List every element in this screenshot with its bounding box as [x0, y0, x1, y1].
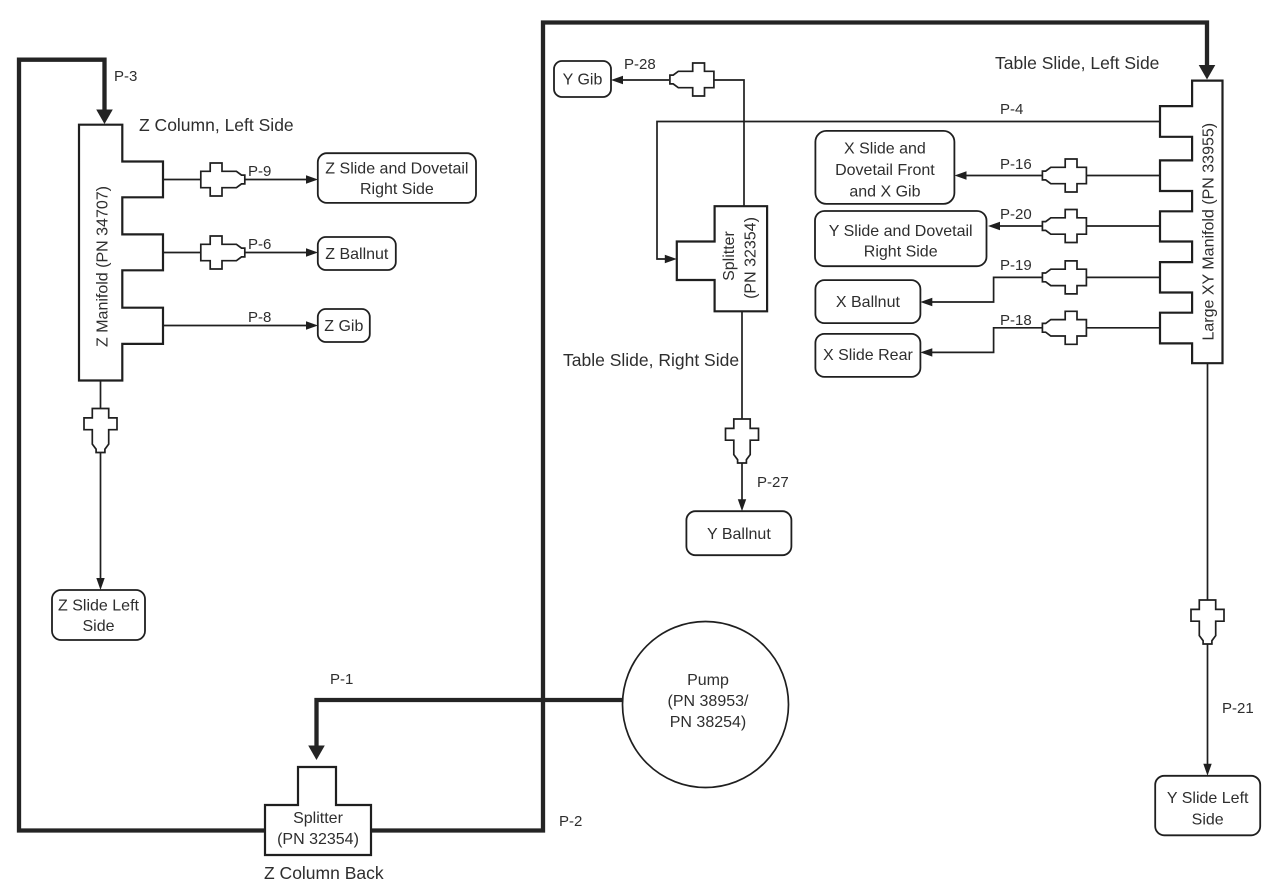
svg-text:P-28: P-28 — [624, 56, 656, 73]
svg-text:(PN 38953/: (PN 38953/ — [668, 693, 749, 710]
arrowhead into Z Ballnut box — [306, 248, 318, 256]
pump circle Pump (PN 38953/ PN 38254) — [623, 622, 789, 788]
wire P-6 from manifold tab to fitting — [163, 252, 201, 254]
node box X Slide Rear — [815, 334, 920, 377]
svg-text:P-19: P-19 — [1000, 257, 1032, 274]
wire P-20 fitting to box — [1000, 225, 1043, 227]
svg-text:Splitter: Splitter — [293, 810, 343, 827]
wire P-6 from fitting to box — [245, 252, 307, 254]
node box X Ballnut — [815, 280, 920, 323]
manifold Large XY Manifold (PN 33955) — [1160, 81, 1223, 364]
node box Z Gib — [318, 309, 370, 342]
arrowhead into Y Slide Left Side box — [1203, 764, 1211, 776]
svg-text:Z Slide and Dovetail: Z Slide and Dovetail — [325, 160, 468, 177]
splitter bottom Splitter (PN 32354) — [265, 767, 371, 855]
arrowhead into Z Slide and Dovetail box — [306, 175, 318, 183]
arrowhead into Y Slide and Dovetail box — [988, 222, 1000, 230]
node box Z Slide and Dovetail Right Side — [318, 153, 476, 203]
fitting below center splitter (pointing down) — [726, 419, 759, 463]
fitting on P-9 — [201, 163, 245, 196]
svg-text:Z Gib: Z Gib — [324, 318, 363, 335]
wire P-18 from manifold tab through fitting with jog to X Slide Rear — [932, 328, 1160, 353]
wire from center splitter bottom to fitting — [741, 311, 743, 419]
wire P-16 from manifold tab to fitting — [1087, 175, 1161, 177]
svg-text:Y Slide Left: Y Slide Left — [1167, 790, 1249, 807]
svg-text:Right Side: Right Side — [864, 243, 938, 260]
svg-text:Y Gib: Y Gib — [563, 72, 603, 89]
wire thick feed P-3: splitter left port, left wall, top, down into Z manifold — [19, 60, 266, 831]
fitting on P-20 (pointing left) — [1042, 210, 1086, 243]
svg-text:Side: Side — [82, 618, 114, 635]
node box X Slide and Dovetail Front and X Gib — [815, 131, 954, 204]
node box Z Slide Left Side — [52, 590, 145, 640]
wire from fitting down to Y Ballnut — [741, 463, 743, 500]
node box Y Slide Left Side — [1155, 776, 1260, 836]
svg-text:P-2: P-2 — [559, 813, 582, 830]
svg-text:Large XY Manifold (PN 33955): Large XY Manifold (PN 33955) — [1200, 123, 1217, 341]
svg-text:and X Gib: and X Gib — [849, 184, 920, 201]
svg-text:Z Slide Left: Z Slide Left — [58, 598, 139, 615]
svg-text:P-8: P-8 — [248, 309, 271, 326]
arrowhead into X Slide and Dovetail box — [955, 171, 967, 179]
arrowhead thick into Z manifold top — [96, 110, 113, 125]
arrowhead into X Ballnut box — [920, 298, 932, 306]
wire P-9 from fitting to box — [245, 179, 307, 181]
fitting below XY manifold (pointing down) — [1191, 600, 1224, 644]
svg-text:Dovetail Front: Dovetail Front — [835, 162, 935, 179]
arrowhead into center splitter neck — [665, 255, 677, 263]
wire from Z manifold bottom to fitting — [100, 381, 102, 409]
svg-text:P-16: P-16 — [1000, 156, 1032, 173]
wire thick P-1: pump left to bottom splitter — [317, 700, 624, 746]
wire P-16 fitting to box — [966, 175, 1042, 177]
svg-text:Z Ballnut: Z Ballnut — [325, 246, 389, 263]
arrowhead into Y Gib — [611, 76, 623, 84]
svg-text:Y Ballnut: Y Ballnut — [707, 526, 771, 543]
arrowhead into Z Slide Left Side box — [96, 578, 104, 590]
svg-text:Z Manifold (PN 34707): Z Manifold (PN 34707) — [95, 186, 112, 347]
node box Z Ballnut — [318, 237, 396, 270]
fitting below Z manifold (pointing down) — [84, 409, 117, 453]
fitting on P-6 — [201, 236, 245, 269]
svg-text:P-21: P-21 — [1222, 700, 1254, 717]
svg-text:Pump: Pump — [687, 672, 729, 689]
wire P-19 from manifold tab through fitting with jog to X Ballnut — [932, 277, 1160, 302]
wire from XY manifold bottom to fitting — [1207, 363, 1209, 600]
wire from fitting down to Y Slide Left Side — [1207, 644, 1209, 764]
svg-text:P-18: P-18 — [1000, 312, 1032, 329]
fitting on P-28 (pointing left) — [670, 63, 714, 96]
fitting on P-19 (pointing left) — [1042, 261, 1086, 294]
wire thick P-2: bottom splitter right port up and over into XY manifold — [371, 23, 1207, 831]
svg-text:Side: Side — [1192, 812, 1224, 829]
wire from fitting down to Z Slide Left Side — [100, 453, 102, 579]
wire P-8 manifold tab to box — [163, 325, 307, 327]
node box Y Slide and Dovetail Right Side — [815, 211, 987, 266]
arrowhead into Y Ballnut box — [738, 499, 746, 511]
wire P-9 from manifold tab to fitting — [163, 179, 201, 181]
node box Y Gib — [554, 61, 611, 97]
arrowhead thick into XY manifold top — [1199, 65, 1216, 80]
arrowhead into X Slide Rear box — [920, 348, 932, 356]
manifold Z Manifold (PN 34707) — [79, 125, 163, 381]
wire P-4 from XY manifold tab to center splitter — [657, 122, 1160, 260]
svg-text:Y Slide and Dovetail: Y Slide and Dovetail — [829, 223, 973, 240]
svg-text:Z Column, Left Side: Z Column, Left Side — [139, 115, 294, 135]
svg-text:Table Slide, Left Side: Table Slide, Left Side — [995, 53, 1159, 73]
svg-text:X Ballnut: X Ballnut — [836, 294, 901, 311]
svg-text:P-27: P-27 — [757, 474, 789, 491]
arrowhead thick into bottom splitter neck — [308, 746, 325, 761]
node box Y Ballnut — [686, 511, 791, 555]
svg-text:P-3: P-3 — [114, 68, 137, 85]
svg-text:P-6: P-6 — [248, 236, 271, 253]
svg-text:P-20: P-20 — [1000, 206, 1032, 223]
svg-text:(PN 32354): (PN 32354) — [277, 831, 359, 848]
splitter center Splitter (PN 32354) — [677, 206, 767, 311]
wire P-28 from fitting to Y Gib — [623, 79, 669, 81]
svg-text:Splitter: Splitter — [721, 230, 738, 280]
svg-text:PN 38254): PN 38254) — [670, 714, 747, 731]
wire from fitting right to corner and down to center splitter top — [714, 80, 744, 206]
arrowhead into Z Gib box — [306, 321, 318, 329]
svg-text:Table Slide, Right Side: Table Slide, Right Side — [563, 350, 739, 370]
svg-text:Right Side: Right Side — [360, 181, 434, 198]
svg-text:X Slide Rear: X Slide Rear — [823, 347, 913, 364]
svg-text:P-1: P-1 — [330, 671, 353, 688]
svg-text:X Slide and: X Slide and — [844, 141, 926, 158]
svg-text:Z Column Back: Z Column Back — [264, 863, 384, 883]
fitting on P-16 (pointing left) — [1042, 159, 1086, 192]
wire P-20 from manifold tab to fitting — [1087, 225, 1161, 227]
svg-text:(PN 32354): (PN 32354) — [743, 217, 760, 299]
svg-text:P-4: P-4 — [1000, 101, 1023, 118]
svg-text:P-9: P-9 — [248, 163, 271, 180]
fitting on P-18 (pointing left) — [1042, 311, 1086, 344]
